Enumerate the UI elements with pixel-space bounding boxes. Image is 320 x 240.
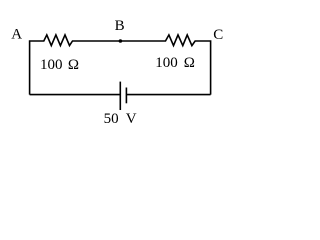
svg-text:50: 50 [104,111,119,127]
svg-text:C: C [213,27,223,43]
svg-text:B: B [115,18,125,34]
svg-text:100: 100 [40,57,63,73]
svg-text:V: V [126,111,137,127]
svg-text:Ω: Ω [68,57,79,73]
svg-text:Ω: Ω [184,55,195,71]
svg-text:A: A [11,27,22,43]
svg-text:100: 100 [155,55,178,71]
